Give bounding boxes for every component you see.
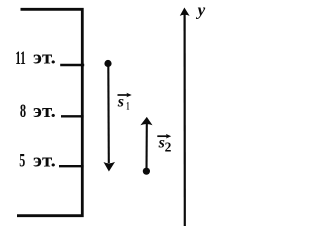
label s1 overbar arrow (118, 94, 130, 96)
vector s1 arrowhead (104, 162, 116, 172)
y axis arrowhead (180, 8, 190, 16)
y axis shaft (184, 13, 186, 226)
svg-text:эт.: эт. (33, 48, 56, 69)
vector s1 start dot (104, 60, 111, 67)
vector s2 start dot (143, 168, 150, 175)
vector s2 shaft (upward) (145, 124, 147, 171)
svg-text:5: 5 (19, 151, 25, 172)
svg-text:эт.: эт. (33, 151, 56, 172)
svg-text:эт.: эт. (33, 101, 56, 122)
svg-text:8: 8 (20, 101, 26, 122)
svg-text:1: 1 (126, 98, 129, 112)
floor tick 11 (60, 64, 84, 66)
svg-text:2: 2 (165, 140, 172, 155)
svg-text:11: 11 (15, 48, 26, 69)
svg-text:y: y (196, 0, 206, 19)
floor tick 8 (61, 115, 84, 117)
vector s2 arrowhead (140, 117, 152, 125)
vector s1 shaft (downward) (107, 64, 110, 163)
building bracket (top wall, right wall, bottom wall) (17, 9, 82, 215)
svg-text:s: s (117, 94, 124, 111)
label s2 overbar arrow (157, 135, 168, 137)
floor tick 5 (59, 165, 84, 167)
